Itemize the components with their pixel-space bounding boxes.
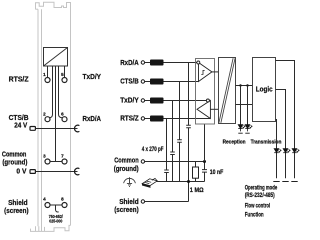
wire hook to terminal 2 bbox=[50, 66, 53, 118]
wire isolation to logic (transmit) bbox=[236, 104, 253, 106]
wire RxD/A to receiver bbox=[164, 62, 197, 64]
svg-text:Shield: Shield bbox=[8, 200, 28, 207]
svg-text:(ground): (ground) bbox=[2, 160, 27, 167]
svg-text:24 V: 24 V bbox=[14, 122, 27, 129]
svg-text:5: 5 bbox=[61, 72, 64, 77]
LED line terminator bars bbox=[273, 181, 297, 183]
receiver inverting bubble bbox=[197, 61, 200, 64]
svg-text:RxD/A: RxD/A bbox=[120, 60, 139, 67]
svg-text:RTS/Z: RTS/Z bbox=[120, 116, 139, 123]
transceiver ground wire bbox=[204, 124, 206, 162]
svg-text:4 x 270 pF: 4 x 270 pF bbox=[142, 146, 164, 153]
svg-text:7: 7 bbox=[61, 153, 64, 158]
LED flow control bbox=[283, 149, 290, 153]
resistor 1 MOhm bbox=[195, 162, 197, 182]
svg-text:Shield: Shield bbox=[119, 199, 139, 206]
driver op-amp U2 bbox=[197, 101, 210, 119]
logic output wire to LED op.mode bbox=[276, 61, 295, 179]
wire isolation to driver bbox=[210, 108, 218, 110]
field terminal Common bbox=[141, 160, 144, 163]
svg-text:Flow control: Flow control bbox=[245, 202, 271, 209]
svg-text:2: 2 bbox=[43, 111, 46, 116]
capacitor drop TxD/Y 270pF bbox=[172, 101, 174, 182]
capacitor drop RTS/Z 270pF bbox=[166, 119, 168, 182]
terminal 1 bbox=[45, 78, 50, 83]
Logic block bbox=[253, 58, 276, 122]
svg-text:Reception: Reception bbox=[223, 140, 246, 146]
DIN rail plate symbol bbox=[142, 178, 157, 187]
ferrite filter CTS/B bbox=[145, 81, 150, 83]
junction common rail / transceiver ground bbox=[203, 160, 206, 163]
terminal 7 bbox=[62, 159, 67, 164]
field terminal CTS/B bbox=[141, 80, 144, 83]
ferrite filter RTS/Z bbox=[145, 118, 150, 120]
wire isolation to logic (receive) bbox=[236, 85, 253, 87]
svg-text:RTS/Z: RTS/Z bbox=[9, 77, 30, 84]
logic output wire to LED flow bbox=[276, 90, 286, 179]
svg-text:8: 8 bbox=[61, 197, 64, 202]
24V power jumper contact bbox=[75, 125, 80, 132]
wire receiver to isolation bbox=[212, 71, 219, 73]
24V wire bbox=[35, 128, 77, 130]
wire to terminal 1 bbox=[47, 66, 49, 78]
terminal 6 bbox=[62, 117, 67, 122]
terminal 5 bbox=[62, 78, 67, 83]
junction transmission LED tap bbox=[246, 84, 248, 86]
electronics box with diagonal (module coupling) bbox=[44, 48, 68, 67]
24V feed connector bbox=[30, 127, 35, 131]
svg-text:Function: Function bbox=[245, 211, 264, 218]
svg-text:4: 4 bbox=[43, 197, 46, 202]
capacitor drop RxD/A 270pF, continues to shield junction bbox=[188, 63, 190, 202]
terminal 8 bbox=[62, 203, 67, 208]
chassis rail wire bbox=[157, 181, 205, 183]
svg-text:(ground): (ground) bbox=[114, 166, 139, 173]
transceiver block outline bbox=[196, 59, 215, 125]
svg-text:10 nF: 10 nF bbox=[210, 169, 224, 176]
driver inverting bubble bbox=[206, 99, 209, 102]
transmission LED D2 bbox=[247, 86, 249, 125]
shield wire bbox=[145, 201, 189, 203]
svg-text:Transmission: Transmission bbox=[251, 140, 282, 146]
capacitor drop CTS/B 270pF bbox=[179, 82, 181, 182]
logic output wire to LED function bbox=[276, 120, 277, 179]
svg-text:Common: Common bbox=[2, 151, 27, 158]
center wire to terminals 3-7 bbox=[55, 66, 57, 162]
field terminal TxD/Y bbox=[141, 99, 144, 102]
module housing outline 750-652 bbox=[31, 2, 71, 231]
svg-text:1 MΩ: 1 MΩ bbox=[190, 187, 204, 194]
svg-text:CTS/B: CTS/B bbox=[120, 79, 139, 86]
field terminal Shield bbox=[141, 200, 144, 203]
svg-text:6: 6 bbox=[61, 111, 64, 116]
common rail wire bbox=[145, 161, 205, 163]
wire RTS/Z from driver bbox=[164, 118, 211, 120]
svg-text:TxD/Y: TxD/Y bbox=[83, 74, 102, 81]
svg-text:RxD/A: RxD/A bbox=[83, 116, 102, 123]
LED operating mode bbox=[292, 149, 299, 153]
field terminal RTS/Z bbox=[141, 117, 144, 120]
wire bar terminals 4-8 with rail hook bbox=[50, 205, 62, 212]
terminal 3 bbox=[45, 159, 50, 164]
functional earth symbol bbox=[124, 177, 136, 186]
0V feed connector bbox=[30, 170, 35, 174]
0V power jumper contact bbox=[75, 168, 80, 175]
svg-text:TxD/Y: TxD/Y bbox=[120, 98, 139, 105]
svg-text:Operating mode: Operating mode bbox=[245, 184, 278, 191]
svg-text:(RS-232/-485): (RS-232/-485) bbox=[245, 192, 275, 199]
capacitor 10 nF bbox=[204, 162, 206, 182]
hysteresis symbol bbox=[201, 70, 204, 74]
reception LED D1 bbox=[240, 86, 242, 125]
terminal 4 bbox=[45, 203, 50, 208]
svg-text:1: 1 bbox=[43, 72, 46, 77]
ferrite filter RxD/A bbox=[145, 62, 150, 64]
wire TxD/Y from driver bbox=[164, 100, 207, 102]
svg-text:(screen): (screen) bbox=[4, 208, 29, 215]
ferrite filter TxD/Y bbox=[145, 100, 150, 102]
0V wire bbox=[35, 171, 77, 173]
field terminal RxD/A bbox=[141, 61, 144, 64]
terminal 2 bbox=[45, 117, 50, 122]
svg-text:CTS/B: CTS/B bbox=[9, 115, 29, 122]
wire hook to terminal 6 bbox=[59, 66, 63, 118]
LED function bbox=[274, 149, 281, 153]
svg-text:0 V: 0 V bbox=[16, 168, 26, 175]
wire CTS/B to receiver bbox=[164, 81, 199, 83]
svg-text:3: 3 bbox=[43, 153, 46, 158]
junction reception LED tap bbox=[239, 84, 241, 86]
svg-text:Common: Common bbox=[114, 158, 139, 165]
isolation barrier box bbox=[219, 58, 236, 124]
svg-text:(screen): (screen) bbox=[114, 207, 139, 214]
wire to terminal 5 bbox=[64, 66, 66, 78]
receiver op-amp U1 bbox=[199, 63, 212, 82]
junction shield/chassis bbox=[187, 180, 190, 183]
svg-text:Logic: Logic bbox=[256, 87, 273, 94]
wire bar terminals 3-7 bbox=[50, 161, 62, 163]
svg-text:025-000: 025-000 bbox=[49, 218, 62, 223]
